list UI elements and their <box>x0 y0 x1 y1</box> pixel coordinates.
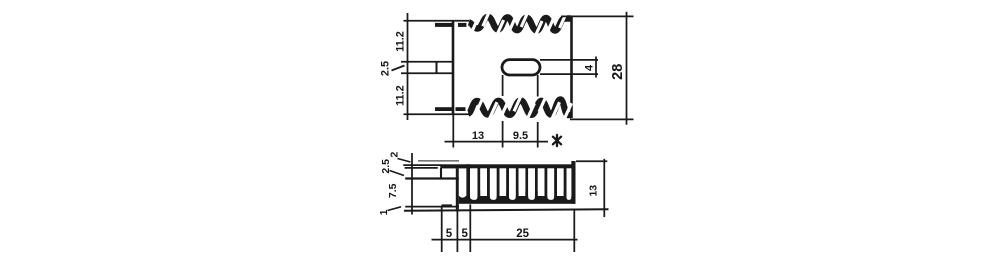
node: fin slot white 3 <box>490 168 497 200</box>
wire: extension below slot left (9.5 dim) lower segment <box>502 121 504 148</box>
wire: 28 dimension line <box>626 12 628 125</box>
svg-text:2: 2 <box>389 152 401 158</box>
node: flange divider vertical <box>436 62 438 73</box>
node: bottom mounting tab right part <box>456 107 466 111</box>
wire: bottom edge extension/tick y114 <box>404 113 470 115</box>
node: fin slot white 10 <box>557 168 564 193</box>
wire: leader for 2 <box>398 159 411 163</box>
node: fin slot white 2 <box>480 168 487 193</box>
wire: extension below x441.7 <box>441 206 443 253</box>
wire: PCB base line <box>404 209 609 211</box>
node: fin leg 4 <box>497 168 500 196</box>
node: body left edge <box>452 21 455 114</box>
wire: leader for 2.5 <box>392 66 405 71</box>
wire: extension below x457.4 <box>456 211 458 252</box>
wire: profile top faint line <box>418 160 459 162</box>
wire: leader for 2.5 side <box>390 171 405 176</box>
node: fin slot white 11 <box>567 168 572 200</box>
wire: clip arm top line / tick <box>403 164 441 166</box>
node: fin leg 9 <box>545 168 548 196</box>
node: asterisk <box>553 135 561 146</box>
svg-text:13: 13 <box>587 185 599 197</box>
node: clip hook bump <box>442 204 452 207</box>
node: fin leg 7 <box>525 168 528 196</box>
wire: channel bottom ledge L4 / tick <box>405 177 461 179</box>
wire: clip arm bottom line / tick <box>405 167 438 169</box>
wire: 13 dimension line (side) <box>603 159 605 217</box>
node: top mounting tab right part <box>458 23 466 27</box>
wire: left vertical dimension line <box>407 13 409 120</box>
wire: extension line top right (28 dim, top) <box>561 15 634 17</box>
node: white slashes in bottom fins <box>477 94 572 121</box>
node: fin leg 8 <box>535 168 538 196</box>
node: channel end wall V1 <box>440 168 442 179</box>
wire: leader for 1 <box>388 207 402 211</box>
svg-text:2.5: 2.5 <box>380 61 392 76</box>
node: fin leg 3 <box>487 168 490 196</box>
node: fin lid bar <box>440 164 575 168</box>
wire: 4 dimension line <box>595 57 597 78</box>
wire: extension below x574.3 <box>573 209 575 252</box>
node: fin leg 2 <box>477 168 480 196</box>
node: mounting plate <box>456 168 459 211</box>
node: fin slot white 4 <box>500 168 507 193</box>
wire: extension below slot right lower segment <box>537 122 539 148</box>
node: fin leg 11 <box>564 168 567 196</box>
wire: slot top extension (4 dim) <box>540 59 598 61</box>
wire: slot bottom extension (4 dim) <box>540 73 598 75</box>
wire: extension below slot right upper segment <box>537 75 539 97</box>
node: white slashes in top fins <box>470 8 568 39</box>
wire: extension line bottom right (28 dim, bottom) <box>570 118 634 120</box>
wire: side view left dimension line <box>411 153 413 215</box>
node: fin leg 10 <box>554 168 557 196</box>
node: bottom twisted fin ribbon <box>468 100 571 116</box>
wire: bottom dimension line (5/5/25) <box>432 239 578 241</box>
svg-text:5: 5 <box>461 228 468 240</box>
node: slot (stadium shaped hole) <box>502 60 540 75</box>
wire: extension below slot left (9.5 dim) upper segment <box>502 75 504 96</box>
svg-text:11.2: 11.2 <box>395 85 407 106</box>
svg-text:13: 13 <box>472 130 484 142</box>
wire: side extension line right (13 dim top) <box>576 160 607 162</box>
wire: bottom dimension line (13 / 9.5) <box>445 141 549 143</box>
node: fin slot white 1 <box>470 168 477 200</box>
node: fin slot white 9 <box>547 168 554 200</box>
node: fin leg 6 <box>516 168 519 196</box>
node: fin slot white 8 <box>538 168 545 193</box>
node: bottom mounting tab left part <box>435 107 453 111</box>
svg-text:9.5: 9.5 <box>513 130 528 142</box>
node: fin right edge <box>571 161 575 204</box>
wire: notch bottom line y73 <box>401 72 454 74</box>
svg-text:7.5: 7.5 <box>387 183 399 198</box>
wire: base bottom ledge L5 / tick <box>405 206 459 208</box>
svg-text:11.2: 11.2 <box>395 31 407 52</box>
node: fin slot white 6 <box>519 168 526 193</box>
wire: notch top line y62 <box>401 61 454 63</box>
svg-text:25: 25 <box>516 228 529 240</box>
node: top mounting tab left part <box>435 23 453 27</box>
wire: extension below x470.3 <box>469 204 471 252</box>
node: fin slot white 7 <box>528 168 535 200</box>
wire: extension below body left edge (13 dim) <box>452 114 454 147</box>
svg-text:28: 28 <box>610 64 626 80</box>
node: fin leg 5 <box>506 168 509 196</box>
node: fin bottom band <box>459 196 576 204</box>
node: fin slot white 5 <box>509 168 516 200</box>
svg-text:5: 5 <box>446 228 453 240</box>
node: flange slot white <box>459 169 466 198</box>
node: body right edge <box>570 17 573 118</box>
svg-text:4: 4 <box>583 64 595 71</box>
wire: top edge extension/tick y21 <box>404 20 470 22</box>
node: top twisted fin ribbon <box>469 17 571 31</box>
node: first fin leg <box>466 164 470 196</box>
